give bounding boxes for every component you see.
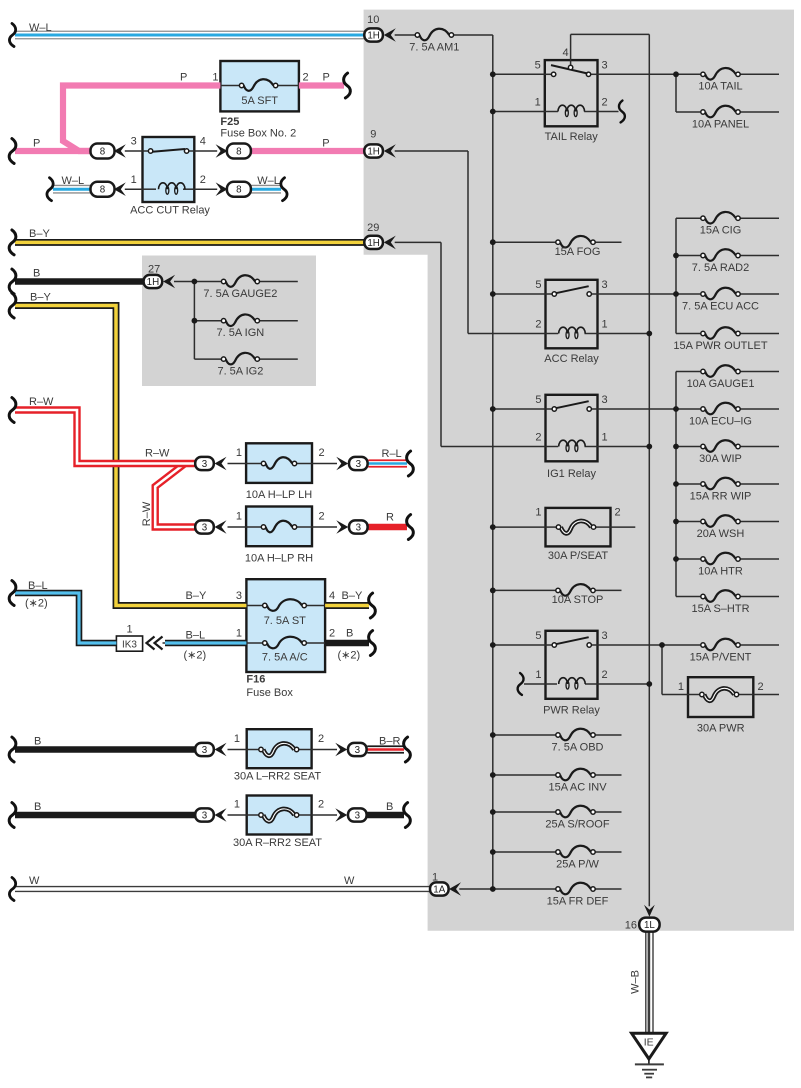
svg-text:R–W: R–W bbox=[29, 396, 54, 408]
svg-text:1H: 1H bbox=[367, 238, 380, 249]
svg-text:25A P/W: 25A P/W bbox=[556, 858, 599, 870]
svg-text:1A: 1A bbox=[433, 885, 445, 896]
svg-text:1: 1 bbox=[432, 872, 438, 884]
svg-text:1H: 1H bbox=[367, 31, 380, 42]
svg-text:8: 8 bbox=[100, 185, 106, 196]
svg-text:15A CIG: 15A CIG bbox=[700, 225, 742, 237]
svg-text:3: 3 bbox=[202, 811, 208, 822]
svg-text:B–Y: B–Y bbox=[30, 291, 51, 303]
svg-text:W–L: W–L bbox=[257, 175, 280, 187]
svg-text:P: P bbox=[322, 137, 329, 149]
svg-text:2: 2 bbox=[615, 507, 621, 519]
svg-text:1: 1 bbox=[126, 624, 132, 636]
svg-text:3: 3 bbox=[602, 394, 608, 406]
svg-text:1H: 1H bbox=[147, 277, 160, 288]
svg-text:Fuse Box: Fuse Box bbox=[246, 687, 293, 699]
svg-text:30A L–RR2 SEAT: 30A L–RR2 SEAT bbox=[234, 771, 322, 783]
svg-text:9: 9 bbox=[370, 128, 376, 140]
svg-text:7. 5A IGN: 7. 5A IGN bbox=[217, 327, 265, 339]
svg-text:1: 1 bbox=[602, 432, 608, 444]
svg-text:7. 5A A/C: 7. 5A A/C bbox=[262, 651, 308, 663]
svg-text:7. 5A IG2: 7. 5A IG2 bbox=[217, 366, 263, 378]
svg-text:B: B bbox=[346, 628, 353, 640]
svg-text:2: 2 bbox=[200, 174, 206, 186]
svg-text:2: 2 bbox=[758, 681, 764, 693]
svg-text:B–R: B–R bbox=[379, 736, 400, 748]
svg-text:3: 3 bbox=[202, 459, 208, 470]
svg-text:15A P/VENT: 15A P/VENT bbox=[690, 651, 752, 663]
svg-text:10A H–LP RH: 10A H–LP RH bbox=[245, 553, 313, 565]
svg-text:3: 3 bbox=[356, 459, 362, 470]
svg-text:1: 1 bbox=[236, 447, 242, 459]
svg-text:W–L: W–L bbox=[29, 22, 52, 34]
svg-text:R–L: R–L bbox=[382, 448, 402, 460]
svg-text:Fuse Box No. 2: Fuse Box No. 2 bbox=[220, 128, 296, 140]
svg-text:15A FOG: 15A FOG bbox=[555, 246, 601, 258]
svg-text:5: 5 bbox=[535, 59, 541, 71]
svg-text:1: 1 bbox=[602, 319, 608, 331]
svg-text:B: B bbox=[386, 801, 393, 813]
svg-text:30A R–RR2 SEAT: 30A R–RR2 SEAT bbox=[233, 837, 322, 849]
svg-text:5: 5 bbox=[535, 279, 541, 291]
svg-text:5: 5 bbox=[535, 394, 541, 406]
svg-text:8: 8 bbox=[236, 147, 242, 158]
svg-text:R: R bbox=[386, 511, 394, 523]
svg-text:W–B: W–B bbox=[630, 970, 642, 994]
svg-text:3: 3 bbox=[356, 523, 362, 534]
svg-text:IG1 Relay: IG1 Relay bbox=[547, 468, 596, 480]
svg-text:P: P bbox=[33, 137, 40, 149]
svg-text:10A ECU–IG: 10A ECU–IG bbox=[689, 415, 752, 427]
svg-text:TAIL Relay: TAIL Relay bbox=[545, 131, 599, 143]
svg-text:30A WIP: 30A WIP bbox=[699, 453, 742, 465]
svg-text:10A GAUGE1: 10A GAUGE1 bbox=[687, 378, 755, 390]
svg-text:3: 3 bbox=[355, 745, 361, 756]
svg-text:ACC CUT Relay: ACC CUT Relay bbox=[130, 205, 210, 217]
svg-text:P: P bbox=[180, 72, 187, 84]
svg-text:2: 2 bbox=[535, 432, 541, 444]
svg-text:F25: F25 bbox=[220, 116, 239, 128]
svg-text:10A STOP: 10A STOP bbox=[552, 594, 604, 606]
svg-text:25A S/ROOF: 25A S/ROOF bbox=[545, 818, 609, 830]
svg-text:B: B bbox=[33, 268, 40, 280]
svg-text:5A SFT: 5A SFT bbox=[241, 95, 278, 107]
svg-text:3: 3 bbox=[131, 136, 137, 148]
svg-text:2: 2 bbox=[329, 628, 335, 640]
svg-text:1: 1 bbox=[131, 174, 137, 186]
svg-text:PWR Relay: PWR Relay bbox=[543, 705, 600, 717]
svg-text:1: 1 bbox=[535, 669, 541, 681]
svg-text:B–Y: B–Y bbox=[29, 228, 50, 240]
svg-text:29: 29 bbox=[367, 222, 379, 234]
svg-text:(∗2): (∗2) bbox=[338, 650, 361, 662]
svg-text:2: 2 bbox=[602, 97, 608, 109]
svg-text:4: 4 bbox=[200, 136, 206, 148]
svg-text:B–Y: B–Y bbox=[342, 590, 363, 602]
svg-text:8: 8 bbox=[236, 185, 242, 196]
svg-text:B–L: B–L bbox=[28, 580, 48, 592]
svg-text:15A S–HTR: 15A S–HTR bbox=[691, 603, 749, 615]
svg-text:3: 3 bbox=[202, 745, 208, 756]
svg-text:2: 2 bbox=[535, 319, 541, 331]
svg-text:30A PWR: 30A PWR bbox=[697, 723, 745, 735]
svg-text:2: 2 bbox=[303, 72, 309, 84]
svg-text:10A PANEL: 10A PANEL bbox=[692, 118, 749, 130]
svg-text:1: 1 bbox=[535, 97, 541, 109]
svg-text:10A TAIL: 10A TAIL bbox=[698, 81, 742, 93]
svg-text:1: 1 bbox=[234, 733, 240, 745]
svg-text:3: 3 bbox=[202, 523, 208, 534]
svg-text:1: 1 bbox=[236, 511, 242, 523]
svg-text:IK3: IK3 bbox=[122, 639, 137, 650]
svg-text:B: B bbox=[34, 801, 41, 813]
svg-text:7. 5A OBD: 7. 5A OBD bbox=[552, 741, 604, 753]
svg-text:7. 5A ECU ACC: 7. 5A ECU ACC bbox=[682, 300, 759, 312]
svg-text:10: 10 bbox=[367, 14, 379, 26]
svg-text:7. 5A RAD2: 7. 5A RAD2 bbox=[692, 262, 749, 274]
svg-text:W: W bbox=[29, 875, 40, 887]
svg-text:3: 3 bbox=[602, 279, 608, 291]
svg-text:3: 3 bbox=[602, 59, 608, 71]
svg-text:1: 1 bbox=[212, 72, 218, 84]
svg-text:(∗2): (∗2) bbox=[184, 650, 207, 662]
svg-text:15A FR DEF: 15A FR DEF bbox=[547, 895, 609, 907]
svg-text:ACC Relay: ACC Relay bbox=[544, 353, 599, 365]
svg-text:7. 5A ST: 7. 5A ST bbox=[264, 615, 306, 627]
svg-text:F16: F16 bbox=[246, 673, 265, 685]
svg-text:1: 1 bbox=[234, 799, 240, 811]
svg-text:7. 5A AM1: 7. 5A AM1 bbox=[409, 42, 459, 54]
svg-text:3: 3 bbox=[355, 811, 361, 822]
svg-text:R–W: R–W bbox=[145, 448, 170, 460]
svg-text:B: B bbox=[34, 736, 41, 748]
svg-text:2: 2 bbox=[319, 511, 325, 523]
svg-text:10A HTR: 10A HTR bbox=[698, 565, 743, 577]
svg-text:1: 1 bbox=[236, 628, 242, 640]
svg-text:4: 4 bbox=[329, 590, 335, 602]
svg-text:15A RR WIP: 15A RR WIP bbox=[690, 490, 752, 502]
svg-text:2: 2 bbox=[318, 799, 324, 811]
svg-text:10A H–LP LH: 10A H–LP LH bbox=[246, 489, 313, 501]
svg-text:30A P/SEAT: 30A P/SEAT bbox=[548, 550, 609, 562]
svg-text:27: 27 bbox=[148, 264, 160, 276]
svg-text:15A AC INV: 15A AC INV bbox=[548, 781, 607, 793]
svg-text:2: 2 bbox=[319, 447, 325, 459]
svg-text:4: 4 bbox=[562, 47, 568, 59]
svg-text:15A PWR OUTLET: 15A PWR OUTLET bbox=[673, 340, 767, 352]
svg-text:2: 2 bbox=[602, 669, 608, 681]
svg-text:1H: 1H bbox=[367, 147, 380, 158]
svg-text:IE: IE bbox=[644, 1037, 654, 1049]
svg-text:3: 3 bbox=[602, 630, 608, 642]
svg-text:1: 1 bbox=[678, 681, 684, 693]
svg-text:W: W bbox=[344, 875, 355, 887]
svg-text:W–L: W–L bbox=[62, 175, 85, 187]
svg-text:2: 2 bbox=[318, 733, 324, 745]
svg-text:5: 5 bbox=[535, 630, 541, 642]
svg-text:1L: 1L bbox=[644, 920, 655, 931]
svg-text:7. 5A GAUGE2: 7. 5A GAUGE2 bbox=[203, 288, 277, 300]
svg-text:B–Y: B–Y bbox=[186, 590, 207, 602]
svg-text:20A WSH: 20A WSH bbox=[697, 528, 745, 540]
svg-text:(∗2): (∗2) bbox=[25, 598, 48, 610]
svg-text:1: 1 bbox=[535, 507, 541, 519]
svg-text:16: 16 bbox=[625, 920, 637, 932]
svg-text:R–W: R–W bbox=[141, 501, 153, 526]
svg-text:B–L: B–L bbox=[186, 630, 206, 642]
svg-text:P: P bbox=[323, 72, 330, 84]
svg-text:8: 8 bbox=[100, 147, 106, 158]
svg-text:3: 3 bbox=[236, 590, 242, 602]
